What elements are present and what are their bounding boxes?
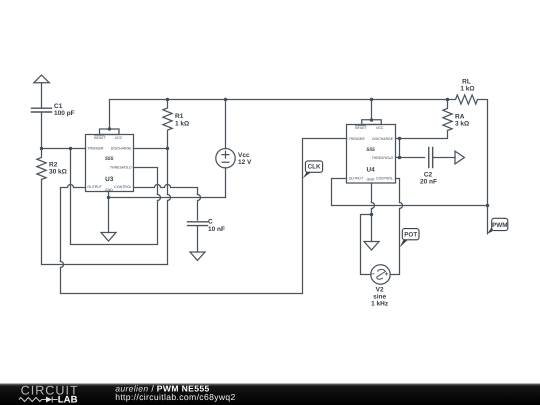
svg-text:12 V: 12 V [238, 159, 252, 166]
svg-text:C1: C1 [54, 103, 63, 110]
svg-text:U4: U4 [367, 166, 376, 173]
svg-text:VCC: VCC [115, 136, 123, 140]
svg-text:100 pF: 100 pF [54, 110, 75, 117]
svg-text:OUTPUT: OUTPUT [349, 177, 364, 181]
svg-text:DISCHARGE: DISCHARGE [372, 137, 393, 141]
svg-text:sine: sine [373, 293, 386, 300]
svg-text:GND: GND [367, 178, 375, 182]
svg-text:1 kΩ: 1 kΩ [460, 85, 474, 92]
svg-text:U3: U3 [105, 176, 114, 183]
svg-text:10 nF: 10 nF [208, 226, 225, 233]
svg-text:R2: R2 [49, 161, 58, 168]
svg-text:555: 555 [366, 147, 375, 153]
svg-text:http://circuitlab.com/c68ywq2: http://circuitlab.com/c68ywq2 [115, 392, 235, 402]
svg-text:20 nF: 20 nF [420, 179, 437, 186]
svg-text:30 kΩ: 30 kΩ [49, 169, 67, 176]
svg-text:Vcc: Vcc [238, 152, 250, 159]
svg-text:GND: GND [105, 188, 113, 192]
svg-text:CLK: CLK [308, 164, 321, 171]
svg-text:555: 555 [105, 156, 114, 162]
svg-text:OUTPUT: OUTPUT [87, 185, 102, 189]
svg-text:CONTROL: CONTROL [376, 177, 393, 181]
svg-text:CONTROL: CONTROL [114, 185, 131, 189]
svg-text:1 kHz: 1 kHz [371, 301, 389, 308]
svg-text:DISCHARGE: DISCHARGE [111, 147, 132, 151]
svg-text:LAB: LAB [58, 395, 78, 405]
svg-text:THRESHOLD: THRESHOLD [110, 165, 132, 169]
svg-text:TRIGGER: TRIGGER [87, 147, 103, 151]
svg-text:R1: R1 [175, 113, 184, 120]
svg-text:C: C [208, 219, 213, 226]
svg-text:1 kΩ: 1 kΩ [175, 120, 189, 127]
svg-text:VCC: VCC [376, 126, 384, 130]
svg-text:3 kΩ: 3 kΩ [455, 120, 469, 127]
svg-text:TRIGGER: TRIGGER [349, 137, 365, 141]
svg-text:RA: RA [455, 113, 465, 120]
svg-text:RESET: RESET [355, 126, 368, 130]
svg-text:RL: RL [462, 78, 471, 85]
svg-text:POT: POT [404, 231, 417, 238]
svg-text:RESET: RESET [94, 136, 107, 140]
svg-text:V2: V2 [376, 286, 384, 293]
svg-text:THRESHOLD: THRESHOLD [372, 156, 394, 160]
svg-text:C2: C2 [424, 171, 433, 178]
svg-text:PWM: PWM [492, 222, 507, 229]
